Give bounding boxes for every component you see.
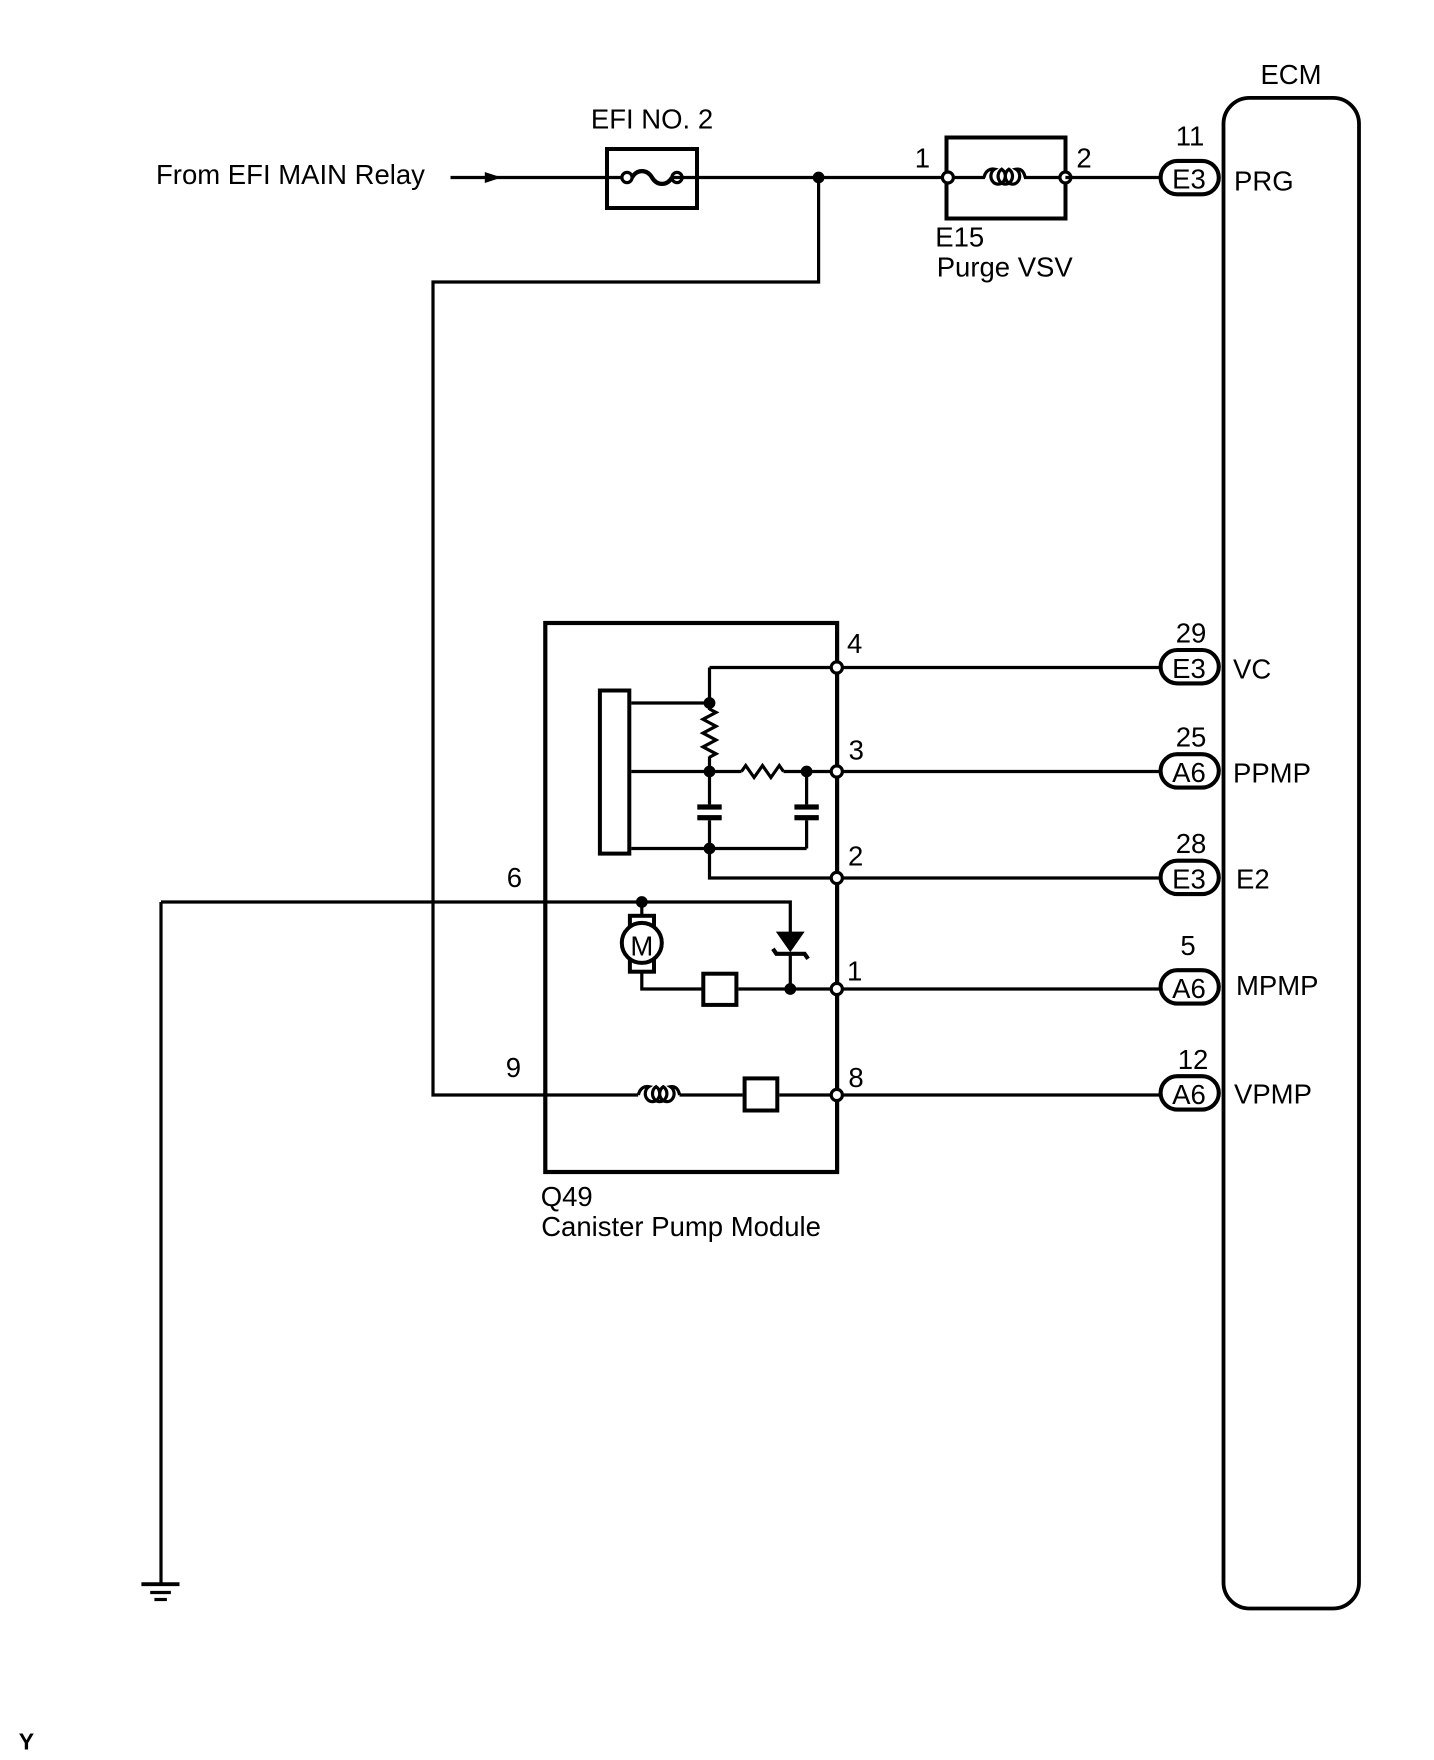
junction dot sensor mid [704,766,716,778]
svg-text:MPMP: MPMP [1236,970,1319,1001]
VSV pin 2 terminal [1060,172,1071,183]
svg-text:1: 1 [847,956,862,987]
wire resistor to pin3 node [784,770,1161,773]
motor bottom lead [642,972,702,990]
wire 6 ground feed [161,902,790,932]
svg-text:8: 8 [848,1062,863,1093]
wire main feed [451,176,633,179]
wire R2 to pin8 [779,1093,1160,1096]
svg-text:A6: A6 [1172,757,1206,788]
module pin 1 terminal [831,983,842,994]
junction dot motor top [636,896,648,908]
svg-text:EFI NO. 2: EFI NO. 2 [591,104,713,135]
VSV internal wire left [948,176,985,179]
junction dot C2 top [801,766,813,778]
fuse terminal circle left [622,172,632,182]
svg-text:12: 12 [1178,1044,1209,1075]
svg-text:28: 28 [1176,828,1207,859]
motor brush top [630,916,654,930]
svg-text:From EFI MAIN Relay: From EFI MAIN Relay [156,159,425,190]
svg-text:Canister Pump Module: Canister Pump Module [541,1211,821,1242]
fuse terminal circle right [672,172,682,182]
svg-text:E2: E2 [1236,864,1270,895]
fuse EFI NO. 2 box [607,149,697,208]
zener diode D1 cathode bar [773,949,808,959]
sensor bottom wire [631,847,806,850]
junction dot sensor bottom [704,843,716,855]
connector A6 pin 5 oval MPMP [1161,970,1219,1003]
motor top lead [640,902,643,917]
svg-text:2: 2 [1076,143,1091,174]
wire row pin2 to E2 [837,876,1160,879]
junction dot diode bottom [784,983,796,995]
svg-text:3: 3 [849,734,864,765]
svg-text:PRG: PRG [1234,166,1294,197]
solenoid E15 Purge VSV box [947,138,1066,219]
capacitor C2 top lead [805,772,808,805]
svg-text:ECM: ECM [1260,59,1321,90]
junction dot main feed [813,172,825,184]
capacitor C2 bottom lead [805,820,808,848]
svg-text:11: 11 [1176,121,1205,152]
svg-text:A6: A6 [1172,973,1206,1004]
zener diode D1 bottom lead [789,954,792,989]
resistor vertical [703,709,716,757]
ECM box [1224,98,1360,1609]
capacitor C2 bottom plate [794,815,818,820]
svg-text:VPMP: VPMP [1234,1079,1312,1110]
connector E3 pin 28 oval E2 [1161,861,1219,894]
svg-text:Y: Y [19,1729,34,1755]
resistor horizontal [742,766,784,778]
arrow head [485,173,500,183]
svg-text:29: 29 [1176,618,1207,649]
connector E3 pin 11 oval [1161,161,1219,194]
VSV pin 1 terminal [942,172,953,183]
ground symbol [141,1582,179,1586]
module pin 4 terminal [831,662,842,673]
svg-text:E15: E15 [935,222,984,253]
svg-text:2: 2 [848,841,863,872]
ground wire [159,902,162,1584]
VSV internal wire right [1024,176,1065,179]
wire node to pin2 [710,849,838,879]
capacitor C1 bottom lead [708,820,711,848]
svg-text:PPMP: PPMP [1233,757,1311,788]
svg-text:Q49: Q49 [541,1181,593,1212]
svg-text:5: 5 [1180,930,1195,961]
wire fuse to VSV [672,176,946,179]
inductor L1 coil [638,1087,679,1102]
pressure sensor element [600,691,629,854]
svg-text:E3: E3 [1172,653,1206,684]
svg-text:25: 25 [1176,722,1207,753]
sensor mid wire [631,770,741,773]
svg-text:E3: E3 [1172,164,1206,195]
wire row pin4 to VC [710,666,1161,669]
fuse element wave [632,171,672,184]
svg-text:M: M [630,931,653,962]
module pin 2 terminal [831,872,842,883]
wire pin4 branch down [708,668,711,711]
capacitor C1 top lead [708,772,711,805]
capacitor C1 bottom plate [697,815,721,820]
svg-text:4: 4 [847,628,862,659]
wire branch down-left to module feed [433,178,819,1096]
svg-text:9: 9 [506,1052,521,1083]
connector A6 pin 25 oval PPMP [1161,754,1219,787]
Q49 module box [545,623,837,1172]
pump resistor box R1 [703,974,736,1005]
sensor top wire [631,701,709,704]
svg-text:Purge VSV: Purge VSV [937,252,1074,283]
capacitor C1 top plate [697,804,721,809]
module pin 8 terminal [831,1089,842,1100]
svg-text:E3: E3 [1172,864,1206,895]
wire resistor to mid node [708,757,711,772]
connector E3 pin 29 oval VC [1161,650,1219,683]
svg-text:VC: VC [1233,654,1271,685]
wire R1 to pin1 [739,987,1161,990]
wire VSV to ECM PRG [1065,176,1160,179]
motor M1 circle [622,923,662,963]
motor brush bottom [630,958,654,972]
VSV coil [984,169,1025,184]
svg-text:6: 6 [507,862,522,893]
module pin 3 terminal [831,766,842,777]
capacitor C2 top plate [794,804,818,809]
junction dot sensor top [704,697,716,709]
connector A6 pin 12 oval VPMP [1161,1076,1219,1109]
svg-text:A6: A6 [1172,1079,1206,1110]
svg-text:1: 1 [915,143,930,174]
wire coil to R2 [680,1093,743,1096]
zener diode D1 triangle [777,932,804,951]
pump resistor box R2 [745,1078,778,1110]
